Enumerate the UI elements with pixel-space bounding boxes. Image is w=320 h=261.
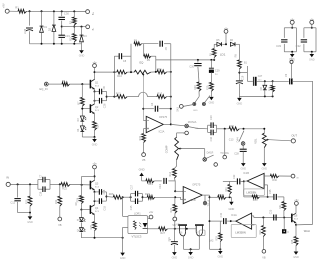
svg-text:LM358N: LM358N	[235, 230, 246, 234]
svg-text:VTL5C3: VTL5C3	[132, 235, 142, 239]
wire tap to R26	[106, 196, 113, 199]
svg-text:OUT: OUT	[291, 134, 297, 138]
svg-text:+9v: +9v	[149, 210, 154, 214]
svg-text:C10: C10	[210, 136, 213, 141]
resistor R27	[159, 227, 168, 231]
diode D9	[264, 81, 266, 85]
resistor R24	[80, 185, 82, 196]
LED D8	[80, 223, 82, 228]
wire IC2A out to switch	[171, 124, 185, 125]
svg-text:R29: R29	[216, 236, 219, 241]
resistor R10 input bias	[29, 184, 31, 196]
input terminal EQ_IN	[44, 82, 48, 86]
svg-text:GND: GND	[241, 168, 247, 171]
resistor R17	[217, 128, 229, 130]
connector DA2	[200, 230, 205, 236]
wire to IC2B inverting input	[174, 181, 176, 191]
op-amp IC2B OP275	[183, 187, 202, 204]
svg-text:GND: GND	[79, 55, 85, 58]
transistor Q4	[81, 209, 89, 211]
svg-text:C13: C13	[210, 115, 213, 120]
switch DA4	[239, 131, 244, 142]
svg-text:IC2B: IC2B	[190, 198, 196, 202]
resistor R23	[210, 196, 218, 198]
svg-text:LM358N: LM358N	[246, 191, 256, 195]
wire bottom rail right block	[239, 95, 272, 97]
ground under C19c	[238, 96, 240, 98]
svg-text:C16: C16	[103, 189, 106, 194]
resistor R7	[81, 84, 83, 97]
wire stage bottom	[82, 136, 94, 138]
svg-text:VB: VB	[58, 223, 62, 227]
svg-text:GND: GND	[229, 207, 235, 211]
svg-text:B-: B-	[91, 28, 95, 31]
terminal B-	[86, 25, 90, 29]
svg-text:+9V: +9V	[1, 3, 5, 8]
switch DA3 contacts	[193, 103, 196, 106]
terminal VB under R15	[142, 153, 146, 157]
capacitor C19b	[210, 220, 223, 222]
svg-text:VOL: VOL	[254, 138, 258, 144]
svg-text:C17: C17	[131, 184, 134, 189]
capacitor pair C13	[197, 127, 207, 129]
svg-text:C19: C19	[220, 212, 223, 217]
ground opto	[120, 253, 125, 256]
capacitor C20	[197, 60, 199, 63]
svg-text:R30: R30	[272, 179, 277, 182]
svg-text:GND: GND	[139, 167, 145, 171]
svg-text:C29: C29	[215, 70, 220, 73]
svg-text:B+: B+	[91, 12, 95, 16]
ground input network	[29, 213, 31, 217]
transistor Q6	[178, 224, 187, 226]
ground below D3	[79, 50, 84, 53]
svg-text:Q1: Q1	[95, 80, 99, 84]
svg-text:D3: D3	[83, 34, 87, 38]
wire node row y60	[156, 59, 214, 61]
ground below C32	[311, 52, 313, 54]
svg-text:LD1: LD1	[220, 53, 226, 57]
capacitor C30	[61, 11, 63, 16]
wire Q8 emitter node	[295, 223, 297, 225]
ground below RC	[219, 249, 221, 251]
svg-text:C19: C19	[40, 191, 43, 196]
wire Q5 emitter	[94, 190, 96, 192]
wire mid rail to B-	[62, 26, 86, 28]
svg-text:GND: GND	[193, 110, 198, 112]
capacitor C27	[252, 77, 254, 86]
svg-text:R24: R24	[77, 197, 80, 202]
svg-text:D2: D2	[48, 27, 52, 31]
resistor R24b	[229, 181, 231, 184]
resistor R5 LED series	[213, 44, 215, 48]
terminal VB mid	[173, 217, 177, 221]
wire Q6 Q7 emitters	[184, 248, 200, 250]
switch lever and lower contact	[188, 127, 197, 129]
svg-text:OP275: OP275	[159, 115, 168, 119]
svg-text:EQ_IN: EQ_IN	[39, 87, 47, 91]
resistor R22	[61, 183, 70, 187]
diode D1	[41, 11, 43, 25]
terminal B+	[86, 10, 90, 14]
switch DA1 contact TO_RG	[223, 155, 227, 159]
svg-text:C13: C13	[229, 139, 234, 142]
svg-text:Q4: Q4	[95, 206, 99, 210]
wire to Q5 base	[70, 183, 90, 186]
svg-text:C30: C30	[64, 12, 69, 16]
ground below VOL	[263, 148, 265, 164]
wire collector feedback Q5	[82, 175, 95, 177]
svg-text:VB: VB	[142, 158, 146, 162]
svg-text:R19: R19	[148, 182, 153, 186]
svg-text:C21: C21	[168, 236, 171, 241]
terminal VB input	[58, 217, 62, 221]
wire pair tap to R12	[107, 96, 117, 98]
svg-text:C20: C20	[189, 65, 194, 68]
wire with hop over EQ wiper line	[127, 96, 138, 98]
resistor R32 to VB	[262, 218, 264, 226]
resistor R31	[283, 197, 285, 202]
node junction dots on top rail	[29, 10, 31, 12]
wire opto pin 4 to ground	[123, 226, 128, 228]
resistor R21 to VB	[174, 197, 176, 204]
svg-text:C32: C32	[296, 44, 301, 48]
svg-text:C15: C15	[130, 205, 133, 210]
ground Q2 stage	[94, 137, 96, 139]
capacitor pair C17 C15b	[131, 193, 135, 195]
svg-text:R10: R10	[117, 74, 122, 78]
svg-text:C22: C22	[233, 174, 236, 179]
diode D2	[53, 11, 55, 24]
transistor Q5	[89, 181, 91, 190]
svg-text:C33: C33	[276, 44, 281, 48]
feedback wire from C9 down right edge	[312, 81, 314, 224]
resistor R30	[270, 174, 278, 177]
terminal VB right	[262, 250, 266, 254]
op-amp IC2A OP275	[146, 116, 163, 132]
LED D7	[80, 210, 82, 218]
svg-text:R27: R27	[160, 231, 165, 235]
capacitor C21 electrolytic	[173, 229, 175, 242]
svg-text:GND: GND	[172, 257, 178, 260]
op-amp IC1A LM358N	[231, 220, 236, 222]
svg-text:R33: R33	[253, 199, 258, 202]
svg-text:R32: R32	[259, 230, 262, 235]
resistor R28	[143, 196, 148, 198]
svg-text:GND: GND	[293, 256, 299, 259]
svg-text:DA3: DA3	[176, 106, 179, 111]
capacitor C18	[242, 145, 244, 149]
svg-text:C27: C27	[258, 75, 263, 78]
capacitor pair C7 C19	[38, 179, 43, 181]
svg-text:R22: R22	[62, 187, 67, 191]
ground below C33	[291, 52, 293, 54]
wire to R22	[50, 183, 61, 185]
diode D3	[81, 27, 83, 34]
svg-text:R15: R15	[139, 135, 142, 140]
svg-text:GND: GND	[262, 168, 268, 171]
svg-text:GND: GND	[188, 256, 194, 259]
svg-text:Q5: Q5	[95, 181, 99, 185]
jack K	[282, 229, 286, 233]
wire opto LED cathode	[148, 228, 159, 230]
wire top rail	[9, 10, 18, 12]
wire to Q1 base	[70, 83, 90, 85]
svg-text:IN: IN	[6, 175, 9, 179]
resistor R11b to VB	[59, 184, 61, 196]
ground under R29b	[209, 97, 214, 100]
svg-text:IC1B: IC1B	[243, 171, 249, 175]
wire Q1 emitter	[94, 89, 96, 92]
optocoupler IC3 VTL5C3	[128, 216, 148, 234]
resistor R2	[73, 11, 75, 17]
switch DA1 contact 2	[214, 163, 218, 167]
capacitor pair C16 C15	[95, 191, 99, 193]
wire feedback vertical	[170, 44, 172, 125]
power terminal +9V opto	[148, 217, 151, 219]
ground Q6 Q7	[190, 249, 192, 252]
wire stage bottom rail	[81, 237, 122, 239]
capacitor C4 feedback	[143, 108, 154, 110]
svg-text:C28: C28	[234, 153, 239, 156]
wire to Q8 base	[254, 217, 291, 219]
capacitor C29 electrolytic	[210, 60, 212, 68]
RC network below IC1A	[210, 248, 221, 250]
ground below C18	[241, 163, 246, 166]
resistor R33 feedback	[243, 181, 245, 197]
wire to VOL pot	[239, 128, 264, 130]
transistor Q8	[291, 214, 293, 223]
capacitor C33	[291, 24, 293, 28]
svg-text:GND: GND	[120, 257, 126, 260]
svg-text:GND: GND	[218, 255, 224, 258]
wire opto pin 1	[123, 215, 128, 217]
wire bottom rail	[30, 43, 82, 45]
capacitor C6 and C26 parallel pair	[95, 91, 100, 93]
capacitor C11	[17, 184, 19, 197]
capacitor C25	[268, 196, 274, 198]
svg-text:C14: C14	[159, 184, 162, 189]
svg-text:WAH: WAH	[304, 229, 310, 233]
svg-text:Q2: Q2	[95, 105, 99, 109]
switch DA1 contact 1	[204, 149, 206, 158]
svg-text:C15: C15	[103, 205, 106, 210]
switch DA1 lever	[206, 155, 213, 158]
svg-text:IC2A: IC2A	[159, 130, 165, 134]
terminal B	[291, 174, 295, 178]
svg-text:C25: C25	[269, 189, 272, 194]
potentiometer COMP	[176, 133, 178, 137]
capacitor C5	[142, 43, 159, 45]
op-amp IC1B LM358N	[247, 173, 264, 188]
ground Q8	[294, 252, 299, 255]
transistor Q2	[82, 108, 90, 110]
diode D5	[214, 43, 217, 45]
capacitor C28	[29, 11, 31, 25]
capacitor C22	[223, 180, 230, 182]
wire IC2B output down	[209, 195, 211, 249]
wire node B1	[239, 72, 247, 74]
capacitor C8	[113, 56, 115, 96]
transistor Q1	[89, 80, 91, 89]
resistor R14 below COMP	[176, 160, 178, 166]
svg-text:GND: GND	[309, 58, 315, 61]
svg-text:GND: GND	[27, 221, 33, 224]
svg-text:OP275: OP275	[192, 183, 201, 187]
terminal VB at Q6	[173, 217, 177, 221]
svg-text:DA4: DA4	[236, 137, 239, 142]
svg-text:C19: C19	[241, 75, 244, 80]
svg-text:LDR1: LDR1	[134, 212, 141, 216]
svg-text:Q8: Q8	[294, 213, 298, 217]
terminal TO_A	[204, 195, 206, 201]
svg-text:EQ: EQ	[140, 60, 144, 64]
resistor R35	[295, 225, 297, 237]
resistor R19	[142, 180, 146, 182]
terminal DA3	[183, 105, 193, 107]
svg-text:GND: GND	[237, 102, 243, 105]
svg-text:TO_A: TO_A	[207, 200, 210, 207]
svg-text:MON/A: MON/A	[188, 120, 197, 124]
ground R23	[230, 197, 232, 202]
resistor R4	[48, 83, 62, 85]
wire vertical to pot left	[130, 44, 132, 72]
svg-text:IC1A: IC1A	[231, 213, 237, 217]
resistor R9	[143, 44, 145, 57]
resistor R15	[143, 129, 145, 134]
wire input	[10, 183, 38, 185]
svg-text:R14: R14	[169, 171, 172, 176]
switch MON/A terminal	[185, 124, 189, 128]
svg-text:D1: D1	[44, 25, 48, 29]
capacitor C14	[163, 178, 165, 184]
ground below C21	[172, 252, 177, 255]
resistor R10	[95, 71, 117, 73]
svg-text:VB: VB	[262, 256, 266, 259]
svg-text:C23: C23	[269, 209, 272, 214]
wire R28 to IC2B non-inverting input	[155, 196, 181, 198]
transistor Q7	[195, 224, 204, 226]
svg-text:R26: R26	[109, 192, 114, 196]
svg-text:COMP: COMP	[164, 145, 168, 153]
capacitor C9	[273, 80, 289, 82]
svg-text:GND: GND	[92, 143, 98, 146]
resistor R8	[238, 44, 240, 60]
capacitor C32	[311, 24, 313, 28]
svg-text:R26: R26	[268, 86, 271, 91]
svg-text:DA1R: DA1R	[207, 151, 214, 154]
svg-text:C26: C26	[103, 103, 106, 108]
svg-text:GND: GND	[209, 101, 215, 104]
